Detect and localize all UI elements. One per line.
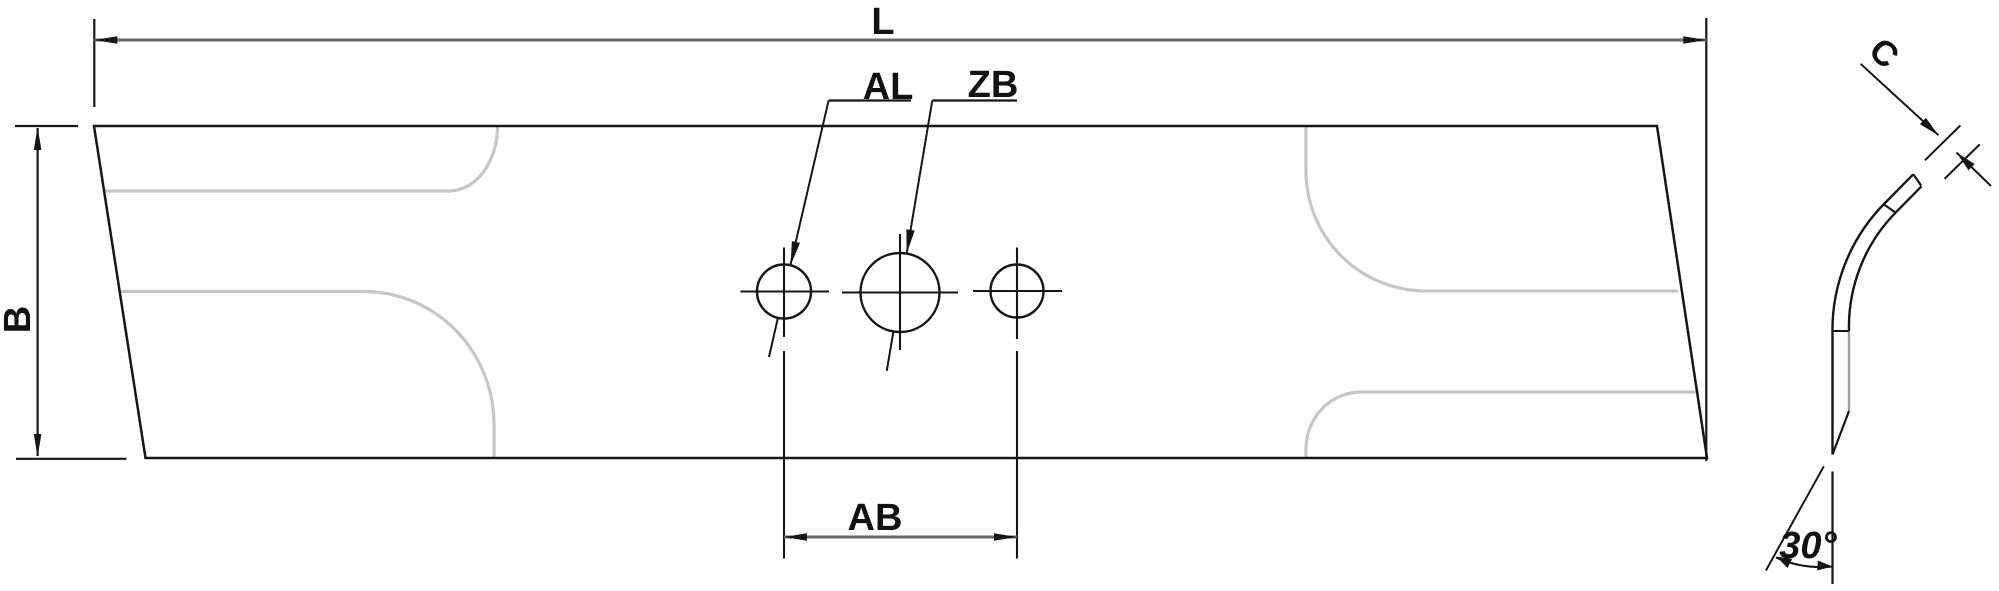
- dimension B arrowhead down: [34, 434, 42, 457]
- dimension C line upper: [1861, 64, 1939, 135]
- svg-text:L: L: [871, 1, 894, 43]
- dimension AB arrowhead left: [784, 533, 807, 541]
- svg-text:C: C: [1862, 30, 1907, 76]
- angle arc: [1776, 558, 1833, 568]
- dimension B line: [36, 128, 38, 456]
- center hole ZB horizontal centerline: [842, 291, 958, 293]
- svg-text:B: B: [0, 306, 39, 333]
- hole AL centerline extension to AB: [783, 351, 785, 559]
- center hole ZB circle: [861, 253, 940, 332]
- dimension C face tick 1: [1925, 125, 1961, 160]
- hole AL vertical centerline: [783, 248, 785, 338]
- dimension L extension line left: [93, 19, 95, 107]
- right hole circle: [991, 265, 1044, 318]
- dimension L arrowhead right: [1683, 36, 1706, 44]
- dimension B extension line bottom: [16, 458, 126, 460]
- leader ZB line: [907, 101, 933, 254]
- svg-text:30°: 30°: [1779, 525, 1837, 567]
- angle arc arrowhead left: [1774, 552, 1792, 568]
- grind line mid-right: [1306, 127, 1678, 292]
- leader AL line: [791, 101, 829, 265]
- side view inner profile upper: [1849, 186, 1922, 331]
- leader AL underline: [829, 99, 911, 101]
- dimension C face tick 2: [1945, 144, 1980, 179]
- side view inner straight gray segment: [1848, 331, 1850, 411]
- angle slant line 30 degrees: [1766, 466, 1824, 570]
- dimension B extension line top: [15, 125, 78, 127]
- leader AL arrowhead: [786, 241, 800, 266]
- hole AL circle: [757, 265, 811, 319]
- side view bevel edge: [1833, 411, 1850, 455]
- hole AL horizontal centerline: [741, 290, 830, 292]
- angle vertical reference line: [1831, 472, 1833, 585]
- dimension AB line: [784, 536, 1017, 539]
- center hole ZB vertical centerline: [899, 234, 901, 350]
- blade outline plan view: [94, 126, 1707, 458]
- dimension B arrowhead up: [34, 127, 42, 150]
- dimension L extension line right: [1705, 18, 1707, 461]
- dimension L line: [94, 39, 1706, 42]
- side view outer profile: [1832, 174, 1913, 454]
- side view tip section tick: [1884, 205, 1896, 213]
- right hole vertical centerline: [1016, 248, 1018, 340]
- leader ZB arrowhead: [902, 229, 914, 254]
- side view transition tick: [1833, 330, 1849, 332]
- dimension AB arrowhead right: [994, 533, 1017, 541]
- svg-text:AB: AB: [848, 497, 903, 539]
- dimension C line lower: [1957, 153, 1992, 187]
- dimension C arrowhead upper: [1920, 118, 1941, 139]
- dimension L arrowhead left: [94, 36, 117, 44]
- angle arc arrowhead right: [1817, 560, 1833, 571]
- side view tip end cap: [1913, 174, 1921, 185]
- leader AL tail stub: [769, 318, 778, 357]
- grind line top-left: [104, 127, 498, 192]
- dimension C arrowhead lower: [1953, 149, 1974, 170]
- right hole horizontal centerline: [973, 290, 1062, 292]
- leader ZB underline: [932, 99, 1017, 101]
- svg-text:AL: AL: [863, 66, 914, 108]
- right hole centerline extension to AB: [1016, 351, 1018, 559]
- grind line bottom-right: [1306, 392, 1699, 458]
- leader ZB tail stub: [887, 331, 894, 370]
- grind line mid-left: [120, 292, 495, 459]
